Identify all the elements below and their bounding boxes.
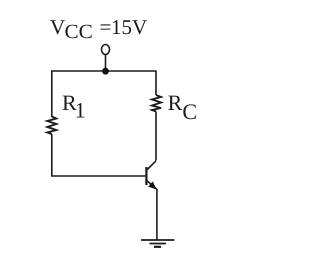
svg-text:1: 1: [75, 98, 86, 123]
svg-text:R: R: [168, 90, 183, 115]
svg-text:V: V: [50, 15, 65, 39]
svg-text:CC: CC: [65, 21, 93, 43]
svg-text:15V: 15V: [111, 15, 147, 39]
svg-text:=: =: [100, 15, 112, 39]
svg-text:C: C: [182, 99, 197, 124]
